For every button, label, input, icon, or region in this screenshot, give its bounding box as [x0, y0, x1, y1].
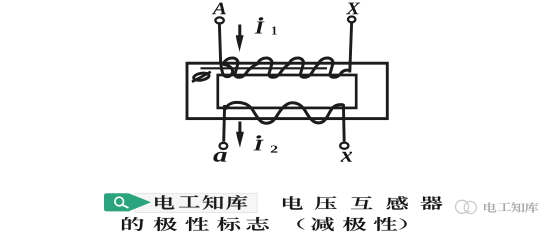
label X	[346, 3, 360, 15]
flux label Phi	[192, 72, 211, 82]
label I1	[255, 17, 277, 35]
label I2	[253, 135, 277, 153]
current arrow I2	[236, 122, 244, 149]
watermark text 电工知库 (gray)	[484, 202, 496, 212]
label A	[212, 3, 226, 15]
caption line 2: 的极性标志（减极性）	[122, 217, 144, 231]
caption line 1: 电压互感器	[283, 196, 303, 209]
terminal a	[220, 143, 228, 149]
watermark badge (green ribbon)	[104, 193, 151, 211]
wire: lead from secondary winding to terminal x	[342, 105, 346, 142]
watermark badge text box	[135, 193, 257, 212]
core outer rectangle	[187, 63, 387, 118]
terminal A	[215, 17, 223, 23]
watermark badge text 电工知库	[155, 195, 174, 209]
secondary winding W2	[225, 102, 343, 123]
wire: lead from terminal A to primary winding	[219, 25, 220, 64]
core inner rectangle (window)	[218, 75, 356, 108]
current arrow I1	[236, 25, 244, 53]
wire: lead from secondary winding to terminal a	[222, 105, 226, 142]
watermark logo (gray circles)	[456, 200, 477, 213]
flux line	[201, 67, 328, 69]
label a	[213, 152, 226, 162]
primary winding W1	[221, 58, 349, 77]
terminal x	[340, 143, 348, 149]
search icon (magnifier)	[115, 197, 128, 207]
terminal X	[348, 17, 355, 23]
label x	[340, 152, 352, 162]
wire: lead from terminal X to primary winding	[350, 23, 352, 73]
